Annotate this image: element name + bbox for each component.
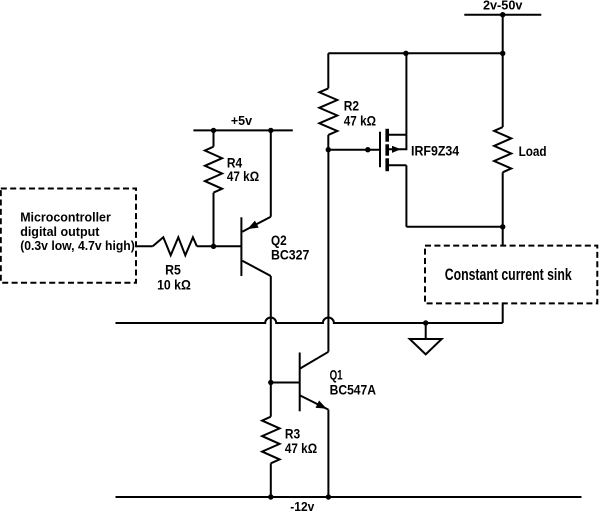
junction: drain / load bottom — [500, 224, 505, 229]
svg-text:10 kΩ: 10 kΩ — [157, 276, 191, 292]
junction: R4 / R5 / Q2 base — [211, 244, 216, 249]
svg-text:Load: Load — [519, 143, 547, 159]
wire: load bottom lead — [502, 172, 504, 227]
resistor R3 — [262, 417, 280, 464]
wire: Q1 emitter down to -12v rail — [327, 410, 329, 497]
svg-text:R5: R5 — [165, 262, 181, 278]
wire: mosfet drain down — [405, 165, 407, 227]
wire: Q2 collector down through bus to Q1 base node — [270, 276, 272, 383]
annotation box: microcontroller output — [1, 189, 136, 283]
wire: R3 bottom lead — [270, 463, 272, 497]
svg-text:digital output: digital output — [20, 224, 100, 239]
svg-text:+5v: +5v — [231, 113, 253, 128]
ground — [410, 323, 442, 354]
wire: mosfet source to rail — [405, 53, 407, 134]
wire: R4 top lead — [213, 130, 215, 146]
resistor R5 — [153, 237, 197, 255]
wire: load top lead — [502, 53, 504, 127]
svg-text:Q1: Q1 — [330, 366, 343, 382]
wire: upper horizontal rail — [328, 52, 502, 54]
junction: Q1 emitter / rail — [326, 494, 331, 499]
wire: gate wire from R2 to mosfet — [328, 149, 380, 151]
wire: supply down — [502, 15, 504, 54]
junction: supply tap — [500, 12, 505, 17]
svg-text:Microcontroller: Microcontroller — [20, 210, 111, 225]
svg-text:IRF9Z34: IRF9Z34 — [411, 143, 459, 159]
svg-text:Constant current sink: Constant current sink — [445, 265, 572, 284]
junction: rail / load top — [500, 51, 505, 56]
transistor Q2 BC327 pnp — [241, 130, 270, 276]
wire: Q2 base wire — [214, 245, 242, 247]
wire: R5 to junction — [197, 245, 214, 247]
junction: R2 / gate / Q1 collector node — [326, 147, 331, 152]
wire: Q1 base wire — [271, 382, 300, 384]
wire: R4 bottom lead — [213, 193, 215, 247]
transistor Q1 BC547A npn — [300, 352, 329, 412]
svg-text:BC327: BC327 — [271, 247, 310, 263]
svg-text:R2: R2 — [344, 98, 359, 114]
wire: ground bus with hops — [116, 318, 503, 323]
resistor R2 — [319, 88, 337, 134]
wire: R2 bottom lead — [327, 135, 329, 150]
svg-text:47 kΩ: 47 kΩ — [227, 168, 259, 184]
svg-text:(0.3v low, 4.7v high): (0.3v low, 4.7v high) — [20, 238, 135, 253]
resistor R4 — [205, 147, 222, 193]
junction: +5v / R4 — [211, 128, 216, 133]
junction: rail / mosfet source — [403, 51, 408, 56]
wire: R3 top lead — [270, 383, 272, 417]
wire: box bottom to bus — [502, 303, 504, 323]
wire: top supply rail — [464, 14, 541, 16]
transistor U1 IRF9Z34 p-mosfet — [380, 129, 406, 171]
wire: R2 top lead — [327, 53, 329, 88]
junction: gate wire dot — [365, 147, 370, 152]
wire: R2 node down through bus to Q1 collector — [327, 150, 329, 352]
svg-text:47 kΩ: 47 kΩ — [285, 440, 317, 456]
svg-text:BC547A: BC547A — [330, 381, 376, 397]
junction: R3 / rail — [268, 494, 273, 499]
svg-text:47 kΩ: 47 kΩ — [344, 112, 376, 128]
wire: +5v rail — [193, 129, 292, 131]
resistor Load — [494, 127, 511, 172]
wire: drain to load bottom — [406, 226, 502, 228]
junction: ground tap — [423, 320, 428, 325]
wire: node to current sink box — [502, 227, 504, 246]
annotation box: constant current sink — [425, 246, 597, 304]
wire: box to R5 — [136, 245, 153, 247]
svg-text:2v-50v: 2v-50v — [483, 0, 523, 12]
svg-text:-12v: -12v — [290, 499, 315, 511]
junction: +5v / Q2 emitter — [268, 128, 273, 133]
svg-text:Q2: Q2 — [271, 232, 287, 248]
junction: Q1 base / R3 — [268, 380, 273, 385]
wire: -12v rail — [116, 496, 582, 498]
